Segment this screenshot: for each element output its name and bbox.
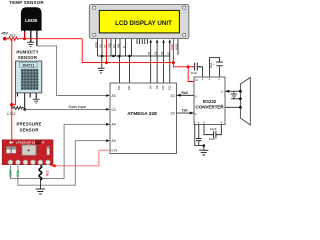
LCD pin 5 [115, 39, 117, 56]
wire +5V rail to LM35 [19, 38, 83, 40]
wire cap to pin2 [197, 67, 202, 77]
wire red DHT11 vcc [12, 93, 16, 105]
red arrow at pcb [51, 164, 56, 167]
svg-text:LED1: LED1 [170, 43, 174, 50]
LCD pin 1 [97, 39, 99, 56]
svg-text:4.7K2: 4.7K2 [7, 112, 16, 116]
arrow into A3 [106, 139, 110, 142]
node +5V [3, 37, 7, 41]
wire red riser to LM35 leg1 [24, 32, 26, 39]
svg-text:A4: A4 [112, 123, 116, 127]
LCD pin LED- [177, 39, 179, 55]
LCD stub pins D0-D3 [137, 39, 147, 44]
screw hole BL [93, 33, 96, 36]
wire LCD D7 [169, 42, 171, 84]
svg-text:1K2: 1K2 [10, 34, 16, 38]
svg-text:DHT11: DHT11 [23, 64, 35, 68]
svg-text:D12: D12 [117, 85, 121, 90]
humidity sensor DHT11 [16, 61, 42, 93]
LM35 leg 3 [36, 31, 38, 46]
svg-text:D4: D4 [147, 51, 151, 55]
ground at db9 [233, 91, 235, 94]
svg-text:D7: D7 [166, 51, 170, 55]
wire red 3.3V from pressure [50, 150, 110, 166]
svg-text:Data input: Data input [69, 104, 88, 109]
svg-text:+5V: +5V [1, 32, 8, 36]
svg-text:10uF: 10uF [209, 137, 216, 141]
svg-text:D8: D8 [155, 85, 159, 89]
wire LM35 out to A0 [37, 46, 108, 96]
inductor coil symbol [39, 165, 42, 180]
svg-text:RS232: RS232 [203, 99, 217, 104]
wire pin7 down [195, 125, 204, 146]
ground under DHT11 [33, 99, 40, 103]
svg-text:VC: VC [103, 44, 107, 48]
wire pin5 cap loop C4 [204, 125, 213, 135]
node at LM35 leg1 [23, 37, 26, 40]
LM35 leg 2 [30, 31, 32, 42]
chip top pin labels [117, 85, 171, 90]
RS232 converter U2 [194, 77, 225, 125]
wire riser to chip b [129, 56, 131, 83]
screw hole TR [183, 6, 186, 9]
screw hole BR [183, 33, 186, 36]
pcb pad 2 [16, 160, 21, 165]
svg-text:SENSOR: SENSOR [18, 55, 37, 60]
wire red +5V down-rail left [11, 39, 13, 105]
DHT11 grid [21, 69, 39, 90]
LCD pin 8 [131, 39, 133, 56]
wire red down to pin16 [188, 67, 194, 82]
LCD pin 6 [119, 39, 121, 56]
wire A3 from pressure [18, 141, 108, 186]
svg-text:GND: GND [94, 42, 98, 48]
svg-text:VS: VS [99, 44, 103, 48]
wire db9 line2 [231, 98, 240, 100]
arrow into D2 [106, 108, 110, 111]
svg-text:D9: D9 [148, 85, 152, 89]
resistor R1 1K2 [7, 37, 19, 41]
pcb pad 3 [23, 160, 28, 165]
svg-text:E: E [122, 46, 126, 48]
svg-text:D1: D1 [171, 94, 175, 98]
wire db9 line3 [225, 106, 240, 108]
ground under RS232 [199, 150, 208, 155]
svg-text:PRESSURE: PRESSURE [16, 122, 41, 127]
svg-text:Vcc: Vcc [46, 170, 50, 176]
LCD pin 3 vcc [106, 39, 108, 63]
pcb pad 1 [8, 160, 13, 165]
ground under LM35 [27, 42, 34, 46]
db9 contact 3 [239, 106, 242, 109]
LCD pin 4 [110, 39, 112, 56]
LM35 leg 1 [24, 31, 26, 39]
humidity sensor caption [16, 50, 38, 61]
db9 contact 2 [239, 97, 242, 100]
svg-text:TEMP SENSOR: TEMP SENSOR [9, 0, 44, 5]
svg-text:10uF: 10uF [209, 62, 213, 68]
ground under LCD bus [101, 56, 103, 68]
resistor R2 4.7K2 [12, 106, 24, 110]
screw hole TL [93, 6, 96, 9]
svg-text:ATMEGA 328: ATMEGA 328 [127, 111, 157, 117]
svg-text:D13: D13 [168, 85, 172, 90]
svg-text:SENSOR: SENSOR [19, 128, 38, 133]
svg-text:LED2: LED2 [175, 43, 179, 50]
LCD pin labels left [94, 42, 126, 48]
LCD module frame [89, 5, 189, 39]
wire red bend to bus [82, 39, 97, 63]
svg-text:A0: A0 [112, 94, 116, 98]
svg-text:HUMIDITY: HUMIDITY [16, 50, 38, 55]
arrow into A0 [106, 94, 110, 97]
svg-text:RW: RW [117, 43, 121, 48]
svg-text:10uF: 10uF [191, 71, 198, 75]
node red pullup [10, 103, 13, 106]
wire red to max232 vcc [173, 63, 188, 67]
svg-text:D10: D10 [161, 85, 165, 90]
svg-text:CONVERTER: CONVERTER [196, 104, 225, 109]
svg-text:3.3V: 3.3V [111, 149, 118, 153]
node bus 3 [118, 55, 121, 58]
wire coil to ground [39, 179, 41, 188]
capacitor C2 loop [210, 58, 220, 78]
ground under coil [36, 189, 45, 194]
wire RxD [177, 94, 195, 96]
capacitor C1 10uF [195, 63, 198, 71]
wire data input [25, 108, 108, 110]
DB9 connector J1 [240, 78, 250, 126]
pressure sensor PCB [2, 140, 53, 165]
wire rs232 to db9 line1 [225, 90, 240, 92]
node red led [172, 61, 175, 64]
vcc bus red under LCD [82, 62, 173, 64]
DHT11 leg gnd [35, 93, 37, 99]
transistor LM35 [21, 7, 42, 30]
wire red to cap [188, 66, 194, 68]
wire red rail to PCB [11, 105, 13, 141]
wire LCD D4 [150, 42, 152, 84]
wire riser to chip a [118, 56, 120, 83]
svg-text:10uF: 10uF [210, 127, 217, 131]
pressure sensor caption [16, 122, 41, 133]
pcb pad 4 [31, 160, 36, 165]
wire LCD D6 [163, 42, 165, 84]
svg-text:SDA: SDA [9, 169, 13, 177]
LCD pin 2 [101, 39, 103, 56]
svg-text:RS: RS [112, 44, 116, 48]
svg-text:SCL: SCL [16, 170, 20, 177]
rs232 pin numbers [194, 77, 223, 125]
svg-text:LM35: LM35 [25, 18, 38, 24]
DHT11 leg vcc [16, 93, 18, 97]
LCD screen [99, 10, 179, 33]
node data junction [23, 108, 26, 111]
wire TxD [177, 112, 195, 114]
DHT11 leg nc [29, 93, 31, 98]
node bus 1 [101, 55, 104, 58]
svg-text:A3: A3 [112, 139, 116, 143]
node red vcc pin [105, 61, 108, 64]
svg-text:LCD DISPLAY UNIT: LCD DISPLAY UNIT [115, 20, 172, 27]
capacitor C3 [198, 125, 200, 139]
arrow into A4 [106, 123, 110, 126]
svg-text:VEE: VEE [108, 43, 112, 48]
node bus 4 [128, 55, 131, 58]
LCD pin LED+ [172, 39, 174, 63]
svg-text:RxD: RxD [182, 91, 189, 95]
ATMEGA 328 U1 [110, 83, 177, 154]
node gnd rs232 [203, 144, 206, 147]
svg-text:D2: D2 [112, 108, 116, 112]
pcb pad 5 [38, 160, 43, 165]
node bus 2 [112, 55, 115, 58]
LCD pin 7 [125, 39, 127, 56]
data wire labels [147, 51, 170, 55]
svg-text:D5: D5 [154, 51, 158, 55]
svg-text:D6: D6 [160, 51, 164, 55]
DHT11 leg data [24, 93, 26, 110]
svg-text:D11: D11 [127, 85, 131, 90]
svg-text:D0: D0 [171, 111, 175, 115]
pcb pad 6 [46, 160, 51, 165]
gnd bus under LCD [98, 55, 171, 57]
wire LCD D5 [156, 42, 158, 84]
wire A4 from pressure [10, 124, 108, 178]
node red 2 [187, 65, 190, 68]
db9 contact 1 [239, 90, 242, 93]
svg-text:TxD: TxD [182, 109, 189, 113]
